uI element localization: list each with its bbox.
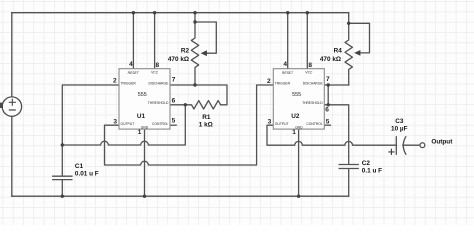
- svg-text:6: 6: [172, 98, 176, 105]
- svg-text:VCC: VCC: [151, 71, 159, 75]
- svg-text:0.01 u F: 0.01 u F: [75, 170, 99, 177]
- svg-text:R1: R1: [202, 114, 211, 121]
- svg-text:555: 555: [138, 92, 147, 98]
- svg-text:Output: Output: [431, 138, 453, 145]
- svg-text:1: 1: [292, 129, 296, 136]
- svg-text:RESET: RESET: [282, 71, 294, 75]
- svg-text:2: 2: [113, 78, 117, 85]
- svg-text:2: 2: [267, 78, 271, 85]
- svg-text:C3: C3: [395, 118, 404, 125]
- svg-text:C1: C1: [75, 163, 84, 170]
- svg-text:VCC: VCC: [305, 71, 313, 75]
- svg-text:5: 5: [172, 118, 176, 125]
- svg-text:7: 7: [326, 76, 330, 83]
- svg-text:CONTROL: CONTROL: [152, 122, 168, 126]
- svg-text:0.1 u F: 0.1 u F: [362, 168, 382, 175]
- svg-text:3: 3: [268, 119, 272, 126]
- svg-text:RESET: RESET: [128, 71, 140, 75]
- svg-text:TRIGGER: TRIGGER: [275, 82, 291, 86]
- svg-text:7: 7: [172, 76, 176, 83]
- svg-text:C2: C2: [362, 160, 371, 167]
- svg-text:THRESHOLD: THRESHOLD: [302, 101, 323, 105]
- svg-text:GND: GND: [295, 125, 303, 129]
- svg-text:8: 8: [156, 62, 160, 69]
- svg-text:3: 3: [113, 119, 117, 126]
- svg-text:DISCHARGE: DISCHARGE: [303, 82, 324, 86]
- svg-text:U2: U2: [291, 113, 300, 120]
- svg-text:4: 4: [283, 61, 287, 68]
- svg-text:470 kΩ: 470 kΩ: [168, 56, 189, 63]
- svg-text:1: 1: [138, 129, 142, 136]
- svg-text:OUTPUT: OUTPUT: [275, 122, 289, 126]
- svg-text:TRIGGER: TRIGGER: [121, 82, 137, 86]
- svg-text:THRESHOLD: THRESHOLD: [148, 101, 169, 105]
- svg-text:R2: R2: [181, 48, 190, 55]
- svg-text:1 kΩ: 1 kΩ: [199, 121, 213, 128]
- svg-text:R4: R4: [334, 47, 343, 54]
- svg-text:555: 555: [292, 92, 301, 98]
- svg-text:10 µF: 10 µF: [391, 126, 408, 133]
- svg-text:8: 8: [308, 62, 312, 69]
- svg-text:OUTPUT: OUTPUT: [121, 122, 135, 126]
- svg-text:4: 4: [129, 61, 133, 68]
- svg-text:5: 5: [326, 118, 330, 125]
- svg-text:470 kΩ: 470 kΩ: [320, 56, 341, 63]
- svg-text:DISCHARGE: DISCHARGE: [149, 82, 170, 86]
- svg-text:6: 6: [325, 106, 329, 113]
- svg-text:GND: GND: [141, 125, 149, 129]
- svg-text:CONTROL: CONTROL: [306, 122, 322, 126]
- svg-text:U1: U1: [137, 113, 146, 120]
